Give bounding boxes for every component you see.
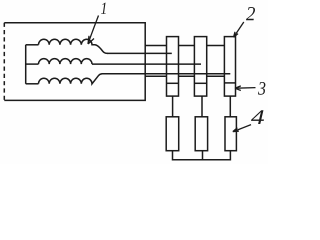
shielded enclosure dashed left edge	[3, 23, 5, 101]
label 1	[101, 3, 106, 14]
resistor R3	[225, 117, 236, 151]
down wire C	[229, 96, 231, 117]
coil L3 (phase 3 winding)	[39, 74, 103, 84]
leader arrow for label 3	[236, 87, 256, 90]
leader arrow for label 1	[88, 16, 98, 43]
resistor R1	[166, 117, 179, 151]
down wire B	[201, 96, 203, 117]
feedthrough column C (bushing 2)	[224, 37, 235, 97]
label 2	[246, 7, 255, 20]
lower ground bus wire	[145, 75, 224, 77]
top ground bus wire	[145, 45, 224, 47]
coil L1 (phase 1 winding)	[39, 39, 108, 53]
shielded enclosure box (solid top/right/bottom)	[4, 23, 145, 101]
bus stub to coil 1	[26, 44, 39, 46]
phase wire 3	[102, 73, 231, 75]
down wire A	[172, 96, 174, 117]
star-point bus	[25, 45, 27, 84]
feedthrough column B	[194, 37, 206, 97]
phase wire 2	[92, 63, 201, 65]
label 4	[251, 110, 264, 124]
leader arrow for label 4	[234, 125, 251, 132]
bottom tie bus of resistors	[173, 151, 231, 160]
label 3	[258, 82, 265, 95]
resistor R2	[195, 117, 207, 151]
stub R2 to tie bus	[202, 151, 204, 160]
feedthrough column A	[167, 37, 179, 97]
bus stub to coil 3	[26, 83, 39, 85]
coil L2 (phase 2 winding)	[39, 59, 92, 64]
phase wire 1	[107, 52, 172, 54]
bus stub to coil 2	[26, 63, 39, 65]
leader arrow for label 2	[234, 22, 244, 37]
